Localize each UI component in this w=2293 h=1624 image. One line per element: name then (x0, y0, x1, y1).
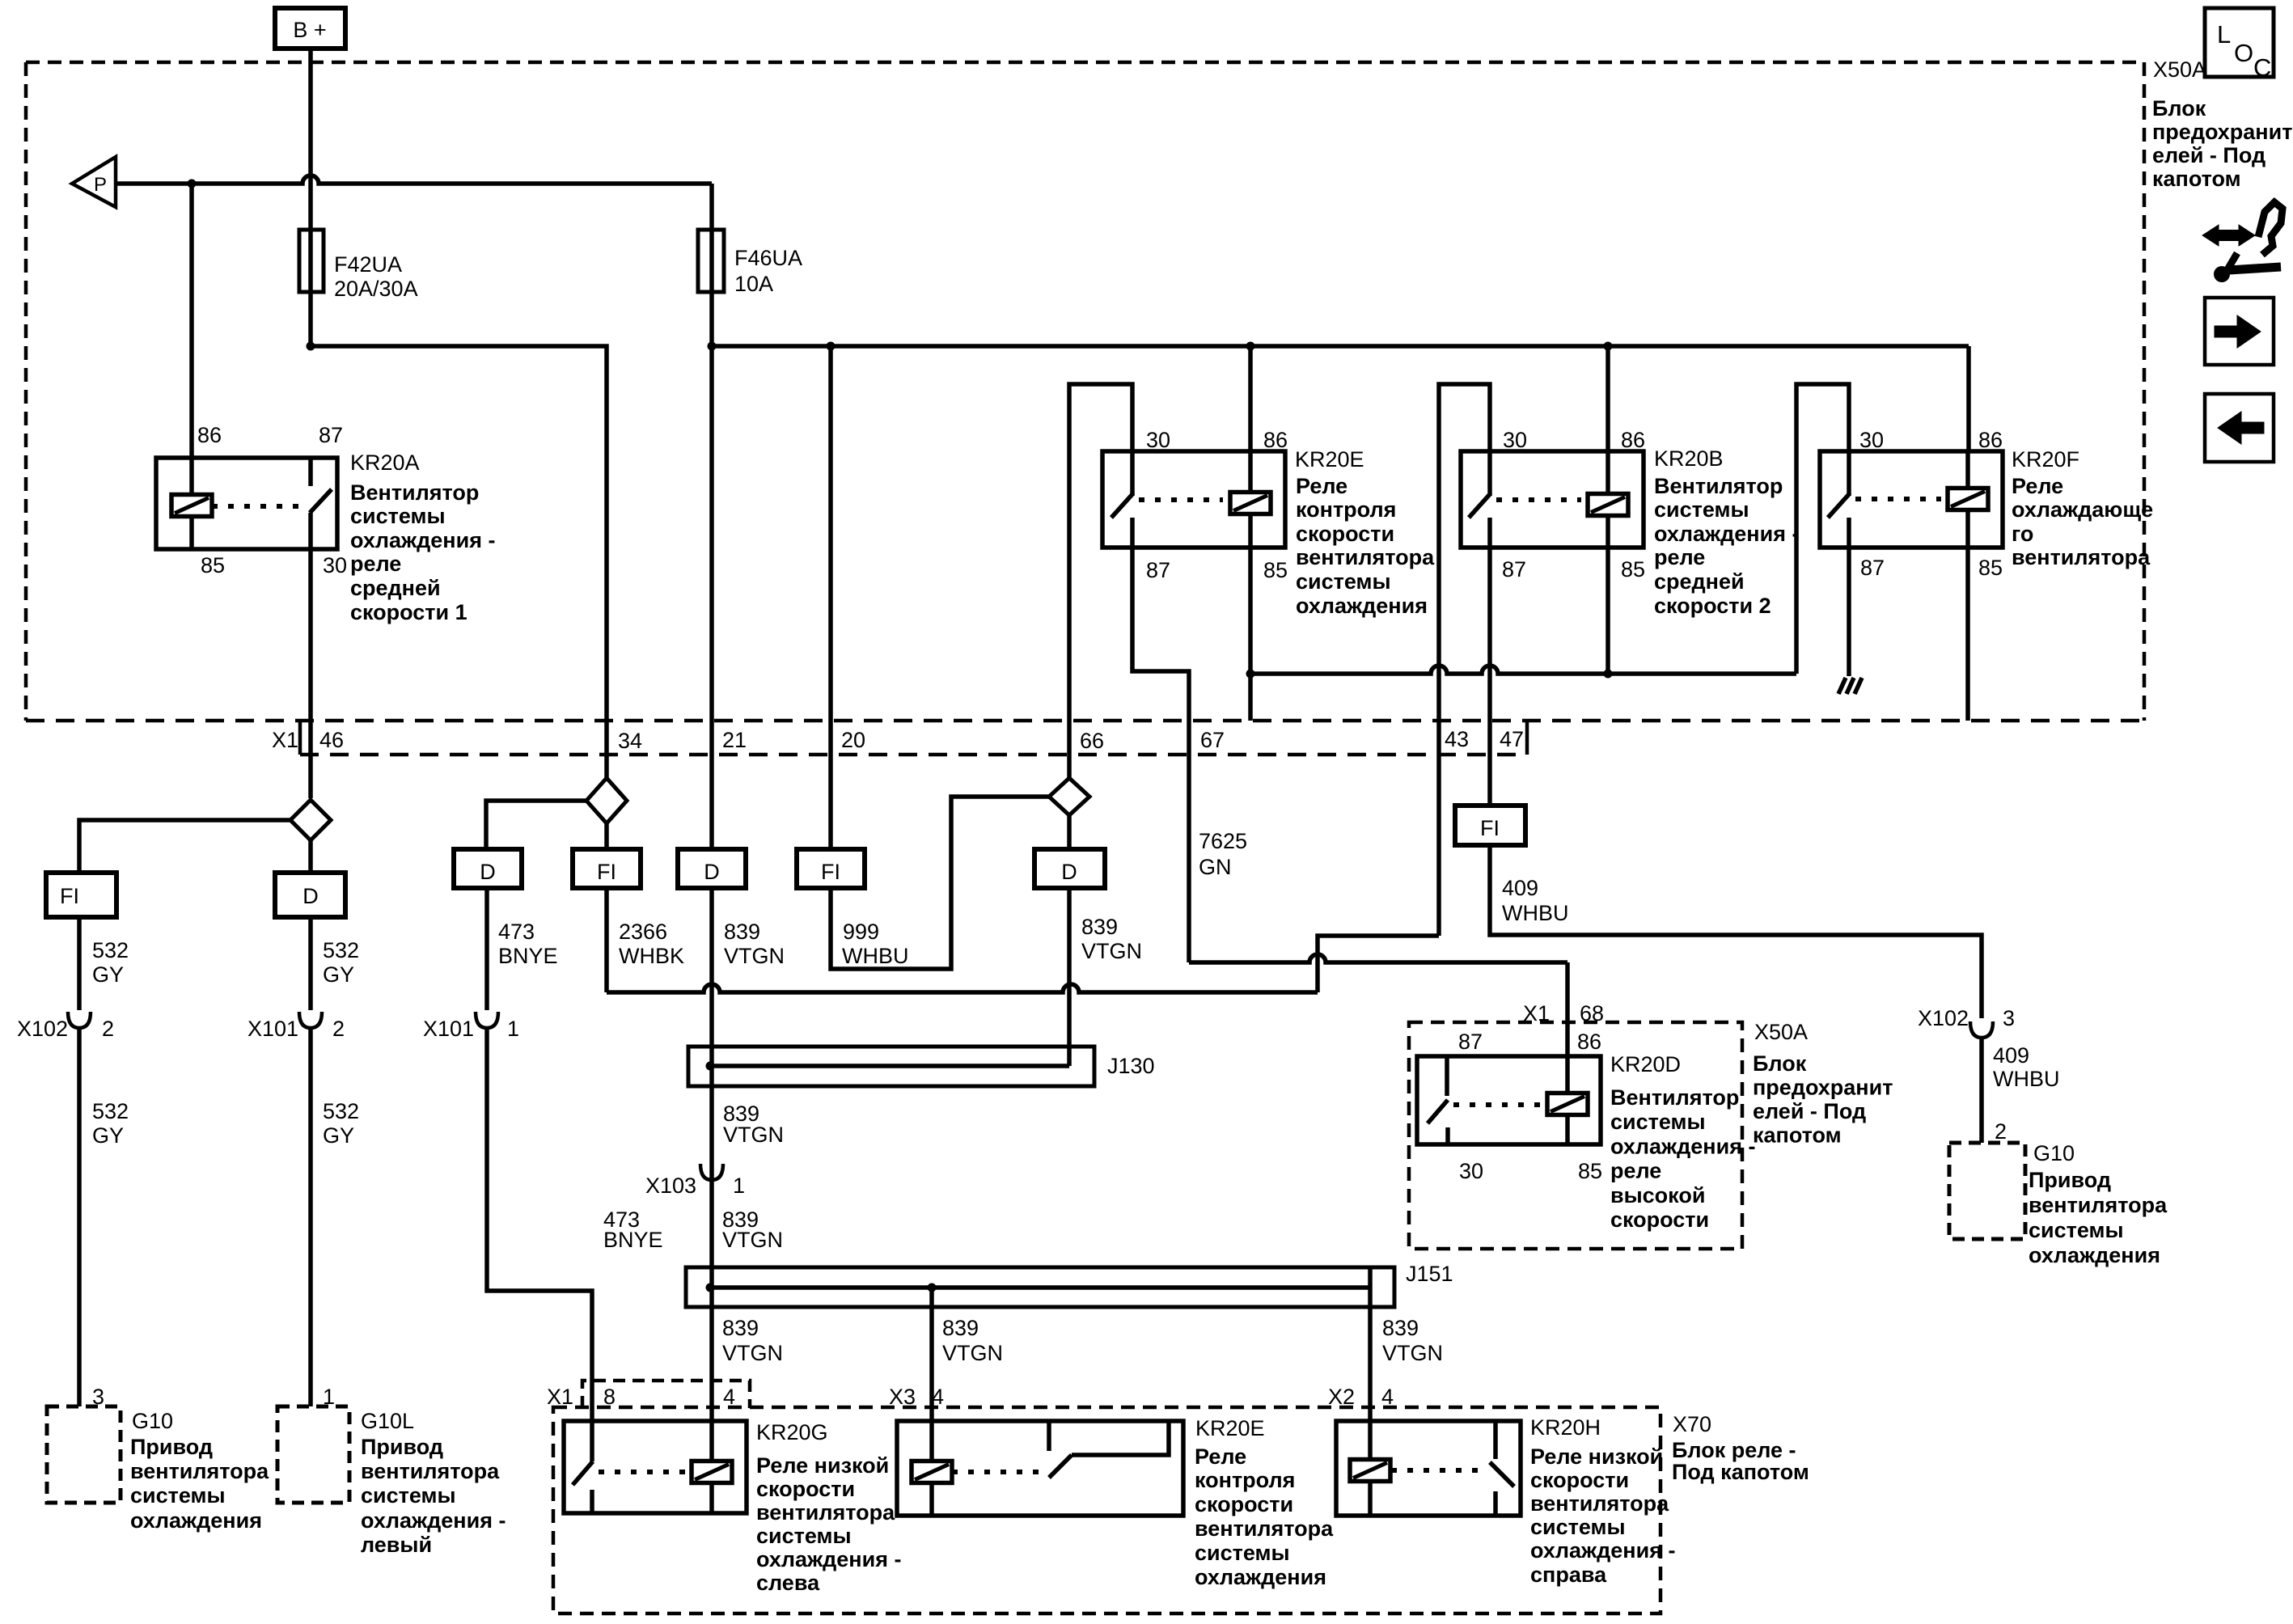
svg-text:WHBU: WHBU (1993, 1067, 2060, 1091)
svg-text:BNYE: BNYE (498, 944, 558, 968)
svg-text:вентилятора: вентилятора (361, 1459, 500, 1483)
label X70 (1672, 1412, 1809, 1484)
wire 532 GY mid upper (308, 917, 313, 1010)
wire KR20E pin85 to ground bus (1248, 548, 1253, 721)
wire F46UA down to pin 21 (709, 184, 714, 849)
splice J151 box (686, 1267, 1394, 1307)
node bus to KR20E 86 (1246, 342, 1255, 351)
node bus to 20-line (827, 342, 836, 351)
label pin 43 (1445, 727, 1469, 751)
arrow box right (2205, 298, 2274, 365)
label J151 (1406, 1262, 1453, 1286)
relay KR20B box (1461, 451, 1644, 548)
battery feed B+ box (275, 8, 345, 49)
label 409 WHBU right (1993, 1043, 2060, 1091)
svg-text:473: 473 (498, 920, 535, 944)
relay KR20A box (156, 458, 337, 549)
connector row tick right (1525, 721, 1529, 755)
svg-text:532: 532 (323, 938, 359, 962)
wire 999 WHBU route (831, 797, 1049, 969)
svg-text:охлаждения -: охлаждения - (361, 1508, 506, 1533)
svg-text:839: 839 (722, 1316, 759, 1340)
label pin 1 G10L (323, 1385, 335, 1409)
svg-text:839: 839 (724, 920, 760, 944)
svg-text:87: 87 (1502, 557, 1526, 582)
wire diamond34 down to FI (604, 823, 609, 849)
svg-text:Реле: Реле (2012, 474, 2063, 498)
svg-text:2: 2 (332, 1017, 345, 1041)
wire 43 to 2366 route (607, 936, 1439, 992)
relay KR20E bottom contact (1049, 1421, 1169, 1478)
label pin 21 (722, 728, 747, 752)
relay KR20A contact (192, 458, 332, 549)
label KR20E bottom name (1195, 1416, 1265, 1440)
svg-text:охлаждения: охлаждения (1296, 594, 1428, 618)
svg-text:87: 87 (1860, 556, 1885, 580)
symbol FI box 409 (1455, 806, 1525, 845)
svg-text:8: 8 (603, 1385, 616, 1409)
svg-text:охлаждения -: охлаждения - (350, 528, 495, 552)
wire bus A right segment (712, 344, 1969, 349)
splice J130 box (688, 1047, 1094, 1086)
svg-text:системы: системы (1195, 1541, 1290, 1565)
relay KR20H box (1336, 1421, 1521, 1516)
connector X102 pin3 cup (1970, 1021, 1993, 1038)
svg-text:2366: 2366 (619, 920, 667, 944)
wire 473 BNYE upper (484, 888, 489, 1010)
svg-text:системы: системы (1654, 497, 1749, 522)
svg-text:FI: FI (60, 884, 79, 908)
wire diamond down to D branch (308, 840, 313, 873)
wire 409 WHBU route (1490, 845, 1982, 1018)
svg-text:J130: J130 (1107, 1054, 1155, 1078)
node bus to KR20B 86 (1604, 342, 1613, 351)
label 999 WHBU (842, 920, 909, 968)
relay KR20E bottom coil (912, 1421, 952, 1516)
node J151 junction 2 (928, 1284, 937, 1292)
svg-text:839: 839 (1081, 915, 1118, 939)
svg-text:21: 21 (722, 728, 747, 752)
svg-text:4: 4 (1381, 1385, 1394, 1409)
svg-text:L: L (2217, 20, 2231, 49)
svg-text:VTGN: VTGN (723, 1123, 784, 1147)
label pin 47 (1500, 727, 1524, 751)
fuse block X50A dashed border (top) (26, 61, 2144, 65)
label X2 4 (1328, 1385, 1394, 1409)
svg-text:охлаждения -: охлаждения - (1610, 1134, 1755, 1158)
symbol FI box left (46, 873, 116, 917)
label J130 (1107, 1054, 1155, 1078)
svg-text:10A: 10A (734, 272, 773, 296)
wire 85 ground bus (1250, 666, 1796, 674)
connector row tick left (298, 721, 302, 755)
svg-text:KR20B: KR20B (1654, 446, 1724, 471)
node F46UA bus junction (708, 342, 717, 351)
svg-text:X102: X102 (17, 1017, 68, 1041)
label 839 VTGN below X103 (722, 1207, 783, 1252)
svg-text:X70: X70 (1673, 1412, 1711, 1436)
connector X101 pin2 cup (299, 1012, 322, 1028)
wire diamond34 to D branch (486, 801, 586, 849)
svg-text:KR20D: KR20D (1610, 1052, 1681, 1076)
svg-text:409: 409 (1502, 876, 1538, 900)
svg-text:Привод: Привод (130, 1435, 213, 1459)
svg-text:30: 30 (1859, 428, 1884, 452)
svg-text:7625: 7625 (1199, 829, 1247, 853)
label 532 GY mid lower (323, 1099, 359, 1148)
svg-text:1: 1 (733, 1174, 745, 1198)
svg-text:F42UA: F42UA (334, 252, 402, 277)
svg-text:85: 85 (201, 553, 225, 577)
wire X3 4 drop (929, 1288, 934, 1421)
label 473 BNYE (498, 920, 558, 968)
svg-text:4: 4 (723, 1385, 735, 1409)
wire KR20F pin85 stub (1965, 548, 1970, 721)
relay KR20A coil (171, 458, 212, 549)
svg-text:999: 999 (843, 920, 879, 944)
svg-text:D: D (302, 884, 319, 908)
label X1 68 row (1523, 1001, 1604, 1026)
relay KR20D coil (1547, 1056, 1588, 1144)
svg-text:GY: GY (92, 1123, 124, 1148)
relay KR20E pin labels (1146, 428, 1288, 582)
label X1 8 4 (547, 1385, 735, 1409)
svg-text:X1: X1 (272, 728, 298, 752)
relay KR20F box (1820, 451, 2003, 548)
label pin 20 (841, 728, 865, 752)
svg-text:контроля: контроля (1296, 497, 1396, 522)
svg-text:VTGN: VTGN (722, 1228, 783, 1252)
relay KR20D box (1417, 1056, 1601, 1144)
connector X101 pin1 cup (476, 1012, 498, 1028)
wire 66 line to J130 (1067, 888, 1072, 1066)
svg-text:контроля: контроля (1195, 1468, 1295, 1492)
svg-text:левый: левый (361, 1533, 432, 1557)
svg-text:86: 86 (1263, 428, 1288, 452)
svg-text:высокой: высокой (1610, 1183, 1705, 1207)
svg-text:X50A: X50A (1754, 1020, 1808, 1044)
relay KR20E box (1102, 451, 1285, 548)
svg-text:елей - Под: елей - Под (1753, 1099, 1866, 1123)
label 532 GY mid upper (323, 938, 359, 987)
svg-text:вентилятора: вентилятора (130, 1459, 269, 1483)
label 532 GY left lower (92, 1099, 129, 1148)
node bus A start (307, 342, 315, 351)
page connector P (72, 157, 116, 207)
label 839 VTGN X2 (1382, 1316, 1443, 1365)
svg-text:Привод: Привод (2029, 1168, 2111, 1192)
relay KR20B contact (1469, 451, 1491, 548)
node J151 junction 1 (706, 1284, 715, 1292)
svg-text:системы: системы (1296, 569, 1391, 594)
label pin 3 G10 (92, 1385, 104, 1409)
svg-text:KR20E: KR20E (1195, 1416, 1265, 1440)
svg-text:го: го (2012, 522, 2033, 546)
svg-text:Блок реле -: Блок реле - (1672, 1438, 1796, 1462)
wire diamond to FI branch (79, 820, 290, 873)
label 532 GY left upper (92, 938, 129, 987)
splice J130 bus bar (710, 1064, 1069, 1068)
svg-text:системы: системы (130, 1483, 226, 1508)
svg-text:Реле: Реле (1195, 1444, 1246, 1469)
label KR20F name (2012, 447, 2079, 472)
label 839 VTGN above KR20G (722, 1316, 783, 1365)
wire KR20F pin87 to ground (1847, 548, 1851, 676)
label G10 left (130, 1409, 269, 1533)
label KR20D description (1610, 1085, 1755, 1232)
relay KR20E bottom box (897, 1421, 1183, 1516)
connector X103 pin1 cup (700, 1164, 723, 1180)
svg-text:X103: X103 (645, 1174, 696, 1198)
svg-text:капотом: капотом (1753, 1123, 1842, 1148)
relay KR20F contact (1828, 451, 1850, 548)
splice diamond on 46 line (290, 800, 331, 840)
relay KR20B dotted link (1496, 497, 1581, 502)
wire 532 GY left upper (77, 917, 82, 1010)
label 839 VTGN (66) (1081, 915, 1142, 963)
relay KR20D contact (1428, 1056, 1448, 1144)
svg-text:X101: X101 (247, 1017, 298, 1041)
svg-text:2: 2 (102, 1017, 114, 1041)
splice J151 bus bar (710, 1285, 1370, 1290)
svg-text:G10L: G10L (361, 1409, 414, 1433)
svg-text:системы: системы (1610, 1110, 1706, 1134)
relay KR20E dotted link (1139, 497, 1223, 502)
svg-text:2: 2 (1995, 1119, 2007, 1144)
label KR20D name (1610, 1052, 1681, 1076)
wire 68 drop to KR20D (1565, 962, 1570, 1056)
wire 66 feed riser (1069, 384, 1132, 778)
svg-text:охлаждения -: охлаждения - (1530, 1538, 1675, 1563)
svg-text:скорости: скорости (1195, 1492, 1293, 1516)
label 2366 WHBK (619, 920, 684, 968)
svg-text:вентилятора: вентилятора (756, 1500, 895, 1525)
svg-text:GY: GY (323, 962, 354, 987)
svg-text:O: O (2234, 39, 2253, 67)
svg-text:FI: FI (821, 860, 840, 884)
label X1 row (272, 728, 298, 752)
svg-text:охлаждения: охлаждения (2029, 1243, 2160, 1267)
svg-text:KR20F: KR20F (2012, 447, 2079, 472)
splice diamond on 66 line (1049, 778, 1089, 815)
symbol D box 473 (454, 849, 522, 888)
node KR20E 85 junction (1246, 670, 1255, 679)
fan actuator G10 dashed box right (1949, 1143, 2025, 1239)
svg-text:KR20A: KR20A (350, 450, 420, 475)
label X50A top (2152, 57, 2292, 191)
svg-text:43: 43 (1445, 727, 1469, 751)
svg-text:X1: X1 (547, 1385, 573, 1409)
svg-text:реле: реле (350, 552, 401, 576)
svg-text:GY: GY (323, 1123, 354, 1148)
label X102 2 (17, 1017, 114, 1041)
label KR20H name (1530, 1415, 1601, 1440)
svg-text:скорости 1: скорости 1 (350, 600, 467, 624)
wire KR20B feed riser 43 (1439, 384, 1490, 936)
label 839 VTGN X3 (942, 1316, 1003, 1365)
svg-text:VTGN: VTGN (942, 1341, 1003, 1365)
svg-text:охлаждения: охлаждения (1195, 1565, 1326, 1589)
svg-text:Реле: Реле (1296, 474, 1347, 498)
wire KR20B pin86 drop (1606, 346, 1610, 451)
svg-text:532: 532 (323, 1099, 359, 1123)
symbol D box 839 (678, 849, 746, 888)
wire 20 line from bus (828, 346, 833, 849)
svg-text:D: D (704, 860, 720, 884)
svg-text:P: P (94, 174, 107, 196)
label G10L (361, 1409, 506, 1557)
label X101 2 (247, 1017, 345, 1041)
wire B+ down to fuse F42UA (308, 49, 313, 346)
svg-text:системы: системы (2029, 1218, 2124, 1242)
relay KR20H dotted link (1391, 1468, 1479, 1473)
wire KR20E pin86 drop (1248, 346, 1253, 451)
relay KR20F dotted link (1855, 497, 1941, 501)
node junction on P line (188, 180, 197, 188)
relay KR20D pin labels (1458, 1030, 1602, 1183)
connector row dashed line lower (300, 753, 1527, 757)
svg-text:слева: слева (756, 1571, 820, 1595)
symbol D box 839 right (1034, 849, 1105, 888)
relay KR20E bottom dotted link (952, 1470, 1039, 1474)
relay KR20A dotted link (212, 504, 302, 509)
label 839 VTGN (21) (724, 920, 785, 968)
relay KR20G coil (692, 1421, 732, 1513)
wire KR20E pin87 to connector 67 (1132, 548, 1189, 962)
LOC box (2205, 8, 2274, 82)
svg-text:охлаждения -: охлаждения - (1654, 522, 1799, 546)
label X3 4 (889, 1385, 944, 1409)
label F42UA (334, 252, 418, 301)
svg-text:VTGN: VTGN (722, 1341, 783, 1365)
fuse F46UA (698, 230, 724, 292)
svg-text:VTGN: VTGN (1382, 1341, 1443, 1365)
label 839 VTGN above X103 (723, 1102, 784, 1147)
svg-text:охлаждения -: охлаждения - (756, 1547, 901, 1571)
wire KR20A pin30 to connector 46 (308, 549, 313, 798)
svg-text:KR20H: KR20H (1530, 1415, 1601, 1440)
svg-text:F46UA: F46UA (734, 246, 802, 270)
svg-text:85: 85 (1263, 558, 1288, 582)
label G10 right (2029, 1141, 2168, 1267)
svg-text:Вентилятор: Вентилятор (350, 480, 479, 505)
relay KR20B pin labels (1502, 428, 1645, 582)
svg-text:1: 1 (507, 1017, 519, 1041)
connector X1 mini dashed box (582, 1381, 750, 1408)
wire 839 VTGN main vertical (709, 888, 714, 1421)
label F46UA (734, 246, 802, 296)
label X101 1 (423, 1017, 519, 1041)
relay block X70 dashed box (553, 1407, 1661, 1613)
svg-text:GY: GY (92, 962, 124, 987)
svg-text:G10: G10 (132, 1409, 173, 1433)
label KR20G name (756, 1420, 828, 1444)
wire KR20A pin86 drop (189, 184, 194, 458)
arrow box left (2205, 394, 2274, 462)
svg-text:20: 20 (841, 728, 865, 752)
splice diamond on 34 line (586, 778, 627, 823)
svg-text:86: 86 (1621, 428, 1645, 452)
svg-text:85: 85 (1978, 556, 2003, 580)
svg-text:46: 46 (319, 728, 344, 752)
wire bus A corner to KR20F 86 (1966, 346, 1971, 451)
svg-text:елей - Под: елей - Под (2152, 143, 2266, 167)
wire 2366 WHBK down (604, 888, 609, 992)
ground actuator G10 dashed box (47, 1406, 121, 1503)
label pin 46 (319, 728, 344, 752)
label KR20E name (1295, 447, 1364, 472)
svg-text:FI: FI (1480, 816, 1500, 840)
svg-text:X3: X3 (889, 1385, 916, 1409)
label pin 34 (618, 729, 642, 753)
relay KR20B coil (1588, 451, 1628, 548)
wire bus A left segment (311, 346, 607, 778)
fuse F42UA (299, 230, 324, 292)
relay KR20G box (564, 1421, 747, 1513)
svg-text:предохранит: предохранит (1753, 1076, 1893, 1100)
svg-text:WHBU: WHBU (842, 944, 909, 968)
svg-text:D: D (480, 860, 496, 884)
svg-text:30: 30 (1503, 428, 1527, 452)
symbol FI box 2366 (573, 849, 641, 888)
svg-text:WHBU: WHBU (1502, 901, 1569, 925)
symbol D box left (275, 873, 345, 917)
label pin 2 G10 right (1995, 1119, 2007, 1144)
svg-text:Реле низкой: Реле низкой (1530, 1444, 1663, 1469)
svg-text:вентилятора: вентилятора (1296, 545, 1435, 569)
label pin 67 (1200, 728, 1225, 752)
svg-text:Под капотом: Под капотом (1672, 1460, 1809, 1484)
wire 7625 GN route (1189, 954, 1567, 962)
svg-text:KR20G: KR20G (756, 1420, 828, 1444)
svg-text:532: 532 (92, 938, 129, 962)
svg-text:системы: системы (756, 1524, 852, 1548)
label KR20F description (2012, 474, 2153, 569)
label X102 3 (1918, 1006, 2015, 1030)
fuse block X50A dashed border (left) (24, 62, 28, 721)
svg-text:капотом: капотом (2152, 167, 2241, 191)
label KR20H description (1530, 1444, 1675, 1587)
node J130 junction (706, 1062, 715, 1071)
wire diamond66 to D box (1067, 815, 1072, 849)
svg-text:87: 87 (319, 423, 343, 447)
wire KR20B pin85 to ground bus (1606, 548, 1610, 674)
svg-text:системы: системы (1530, 1515, 1626, 1539)
svg-text:C: C (2253, 53, 2271, 82)
svg-text:30: 30 (323, 553, 347, 577)
label 409 WHBU (1502, 876, 1569, 925)
svg-text:47: 47 (1500, 727, 1524, 751)
svg-text:FI: FI (597, 860, 616, 884)
svg-text:B +: B + (293, 18, 326, 42)
relay KR20H coil (1350, 1421, 1390, 1516)
relay KR20E coil (1230, 451, 1271, 548)
svg-text:85: 85 (1621, 557, 1645, 582)
svg-text:87: 87 (1146, 558, 1170, 582)
svg-text:скорости: скорости (1530, 1468, 1629, 1492)
symbol FI box 999 (797, 849, 865, 888)
svg-text:Блок: Блок (2152, 96, 2206, 121)
svg-text:Реле низкой: Реле низкой (756, 1453, 889, 1478)
wire ground bus riser to KR20F (1796, 384, 1849, 674)
svg-text:вентилятора: вентилятора (2012, 545, 2151, 569)
label pin 66 (1080, 729, 1104, 753)
label KR20E description (1296, 474, 1435, 618)
actuator G10L dashed box (277, 1406, 349, 1503)
wire 532 GY mid lower (308, 1028, 313, 1406)
svg-text:D: D (1061, 860, 1077, 884)
svg-text:20A/30A: 20A/30A (334, 277, 418, 301)
